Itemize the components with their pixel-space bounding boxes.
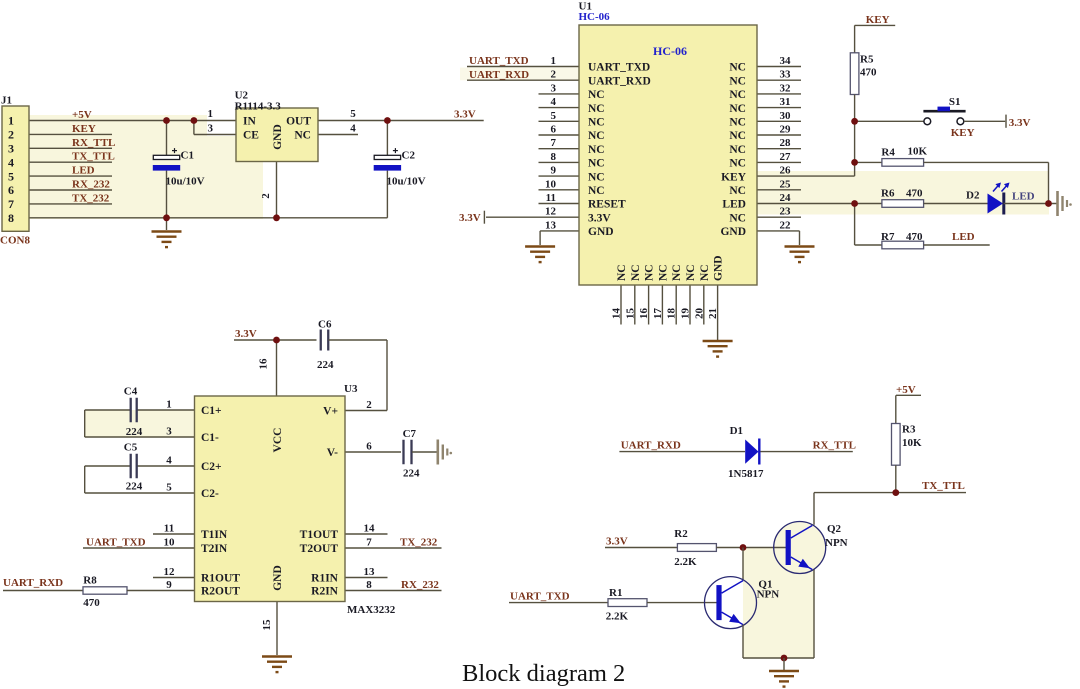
svg-text:3: 3 bbox=[166, 426, 172, 438]
svg-text:19: 19 bbox=[680, 308, 692, 320]
svg-text:S1: S1 bbox=[949, 96, 961, 108]
svg-text:C2: C2 bbox=[402, 150, 416, 162]
svg-text:10: 10 bbox=[164, 537, 176, 549]
svg-text:224: 224 bbox=[403, 468, 420, 480]
svg-text:1: 1 bbox=[166, 399, 172, 411]
svg-text:224: 224 bbox=[126, 426, 143, 438]
svg-text:+5V: +5V bbox=[72, 109, 92, 121]
svg-text:10K: 10K bbox=[908, 146, 928, 158]
svg-text:3.3V: 3.3V bbox=[1009, 117, 1031, 129]
svg-text:9: 9 bbox=[166, 579, 172, 591]
svg-text:T2OUT: T2OUT bbox=[300, 543, 339, 555]
svg-text:D1: D1 bbox=[730, 425, 743, 437]
svg-text:C2+: C2+ bbox=[201, 461, 222, 473]
svg-text:HC-06: HC-06 bbox=[579, 11, 611, 23]
svg-text:NC: NC bbox=[644, 264, 656, 281]
svg-text:16: 16 bbox=[638, 308, 650, 320]
svg-text:NC: NC bbox=[588, 130, 605, 142]
svg-text:NC: NC bbox=[588, 171, 605, 183]
svg-text:KEY: KEY bbox=[951, 127, 975, 139]
svg-text:R2IN: R2IN bbox=[311, 586, 339, 598]
svg-text:12: 12 bbox=[164, 566, 176, 578]
svg-text:NC: NC bbox=[729, 117, 746, 129]
svg-text:RX_232: RX_232 bbox=[72, 179, 110, 191]
svg-text:3.3V: 3.3V bbox=[454, 109, 476, 121]
svg-text:10u/10V: 10u/10V bbox=[166, 176, 205, 188]
svg-text:5: 5 bbox=[350, 108, 356, 120]
svg-text:R7: R7 bbox=[881, 231, 895, 243]
svg-text:NC: NC bbox=[729, 62, 746, 74]
svg-text:LED: LED bbox=[72, 165, 95, 177]
svg-text:NC: NC bbox=[294, 130, 311, 142]
svg-text:1: 1 bbox=[8, 114, 14, 128]
svg-text:NC: NC bbox=[685, 264, 697, 281]
svg-text:7: 7 bbox=[366, 537, 372, 549]
svg-text:C4: C4 bbox=[124, 386, 138, 398]
svg-text:R1OUT: R1OUT bbox=[201, 573, 240, 585]
svg-text:V-: V- bbox=[327, 447, 338, 459]
svg-text:4: 4 bbox=[551, 96, 557, 108]
svg-text:R1: R1 bbox=[609, 587, 622, 599]
svg-text:C1: C1 bbox=[181, 150, 194, 162]
svg-text:NC: NC bbox=[588, 158, 605, 170]
svg-text:32: 32 bbox=[780, 82, 792, 94]
svg-text:T1OUT: T1OUT bbox=[300, 529, 339, 541]
svg-text:+5V: +5V bbox=[896, 384, 916, 396]
svg-text:5: 5 bbox=[551, 110, 557, 122]
svg-text:D2: D2 bbox=[966, 190, 980, 202]
svg-text:C1-: C1- bbox=[201, 432, 219, 444]
svg-text:GND: GND bbox=[588, 226, 614, 238]
svg-text:Block diagram 2: Block diagram 2 bbox=[462, 660, 625, 687]
svg-text:C1+: C1+ bbox=[201, 405, 222, 417]
svg-text:HC-06: HC-06 bbox=[653, 44, 687, 58]
svg-text:470: 470 bbox=[860, 67, 877, 79]
svg-text:10u/10V: 10u/10V bbox=[387, 176, 426, 188]
svg-text:LED: LED bbox=[952, 231, 975, 243]
svg-text:R1114-3.3: R1114-3.3 bbox=[235, 101, 282, 113]
svg-text:GND: GND bbox=[272, 124, 284, 150]
svg-text:GND: GND bbox=[272, 565, 284, 591]
svg-text:14: 14 bbox=[611, 308, 623, 320]
svg-text:3: 3 bbox=[551, 82, 557, 94]
svg-text:TX_TTL: TX_TTL bbox=[72, 151, 115, 163]
svg-text:3.3V: 3.3V bbox=[606, 536, 628, 548]
svg-text:27: 27 bbox=[780, 151, 792, 163]
svg-text:22: 22 bbox=[780, 219, 792, 231]
svg-text:UART_RXD: UART_RXD bbox=[588, 75, 651, 87]
svg-text:UART_RXD: UART_RXD bbox=[621, 440, 681, 452]
svg-text:NC: NC bbox=[729, 212, 746, 224]
svg-text:8: 8 bbox=[551, 151, 557, 163]
svg-text:CE: CE bbox=[243, 130, 259, 142]
svg-text:11: 11 bbox=[164, 523, 174, 535]
svg-text:LED: LED bbox=[1012, 191, 1035, 203]
svg-text:R4: R4 bbox=[881, 147, 895, 159]
svg-text:T1IN: T1IN bbox=[201, 529, 228, 541]
svg-text:NC: NC bbox=[588, 89, 605, 101]
svg-text:NC: NC bbox=[616, 264, 628, 281]
svg-text:8: 8 bbox=[8, 211, 14, 225]
svg-text:GND: GND bbox=[713, 255, 725, 281]
svg-text:9: 9 bbox=[551, 165, 557, 177]
svg-text:4: 4 bbox=[350, 123, 356, 135]
svg-text:7: 7 bbox=[8, 197, 14, 211]
svg-text:UART_TXD: UART_TXD bbox=[86, 537, 146, 549]
svg-text:R8: R8 bbox=[83, 575, 97, 587]
svg-text:1: 1 bbox=[551, 55, 557, 67]
svg-text:26: 26 bbox=[780, 165, 792, 177]
svg-text:13: 13 bbox=[364, 566, 376, 578]
svg-text:NC: NC bbox=[630, 264, 642, 281]
svg-text:10: 10 bbox=[545, 178, 557, 190]
svg-text:UART_RXD: UART_RXD bbox=[3, 577, 63, 589]
svg-text:17: 17 bbox=[652, 308, 664, 320]
svg-text:NPN: NPN bbox=[757, 589, 780, 601]
svg-text:TX_232: TX_232 bbox=[400, 537, 438, 549]
svg-text:470: 470 bbox=[906, 188, 923, 200]
svg-text:1: 1 bbox=[208, 108, 214, 120]
svg-text:3.3V: 3.3V bbox=[459, 212, 481, 224]
svg-text:KEY: KEY bbox=[72, 123, 96, 135]
svg-text:NC: NC bbox=[729, 89, 746, 101]
svg-text:R5: R5 bbox=[860, 54, 874, 66]
svg-text:NC: NC bbox=[588, 144, 605, 156]
svg-text:T2IN: T2IN bbox=[201, 543, 228, 555]
svg-text:NC: NC bbox=[657, 264, 669, 281]
svg-text:16: 16 bbox=[258, 358, 270, 370]
svg-text:10K: 10K bbox=[902, 437, 922, 449]
svg-text:J1: J1 bbox=[1, 95, 12, 107]
svg-text:KEY: KEY bbox=[866, 14, 890, 26]
svg-text:8: 8 bbox=[366, 579, 372, 591]
svg-text:6: 6 bbox=[8, 183, 14, 197]
svg-text:RX_TTL: RX_TTL bbox=[813, 440, 856, 452]
svg-text:3.3V: 3.3V bbox=[235, 328, 257, 340]
svg-text:UART_RXD: UART_RXD bbox=[469, 69, 529, 81]
svg-text:11: 11 bbox=[546, 192, 556, 204]
svg-text:TX_TTL: TX_TTL bbox=[922, 480, 965, 492]
svg-text:23: 23 bbox=[780, 206, 792, 218]
svg-text:TX_232: TX_232 bbox=[72, 192, 110, 204]
svg-text:2.2K: 2.2K bbox=[606, 611, 629, 623]
svg-text:C5: C5 bbox=[124, 442, 138, 454]
svg-text:6: 6 bbox=[366, 441, 372, 453]
svg-text:224: 224 bbox=[317, 359, 334, 371]
svg-text:R2OUT: R2OUT bbox=[201, 586, 240, 598]
svg-text:6: 6 bbox=[551, 124, 557, 136]
svg-text:R1IN: R1IN bbox=[311, 573, 339, 585]
svg-text:30: 30 bbox=[780, 110, 792, 122]
svg-text:R3: R3 bbox=[902, 424, 916, 436]
svg-text:NC: NC bbox=[588, 185, 605, 197]
svg-text:15: 15 bbox=[261, 619, 273, 631]
svg-text:28: 28 bbox=[780, 137, 792, 149]
svg-text:470: 470 bbox=[83, 597, 100, 609]
svg-text:KEY: KEY bbox=[721, 171, 747, 183]
svg-text:NC: NC bbox=[588, 117, 605, 129]
svg-text:4: 4 bbox=[8, 155, 14, 169]
svg-text:29: 29 bbox=[780, 124, 792, 136]
svg-text:2: 2 bbox=[260, 193, 272, 199]
svg-text:C7: C7 bbox=[403, 428, 417, 440]
svg-text:7: 7 bbox=[551, 137, 557, 149]
svg-text:18: 18 bbox=[666, 308, 678, 320]
svg-text:LED: LED bbox=[722, 199, 746, 211]
svg-text:470: 470 bbox=[906, 231, 923, 243]
svg-text:CON8: CON8 bbox=[0, 235, 30, 247]
svg-text:4: 4 bbox=[166, 455, 172, 467]
svg-text:NC: NC bbox=[729, 158, 746, 170]
svg-text:31: 31 bbox=[780, 96, 791, 108]
svg-text:1N5817: 1N5817 bbox=[728, 468, 764, 480]
svg-text:2.2K: 2.2K bbox=[674, 556, 697, 568]
svg-text:UART_TXD: UART_TXD bbox=[469, 55, 529, 67]
svg-text:NC: NC bbox=[729, 103, 746, 115]
svg-text:C6: C6 bbox=[318, 319, 332, 331]
svg-text:OUT: OUT bbox=[286, 116, 311, 128]
svg-text:3: 3 bbox=[8, 142, 14, 156]
svg-text:NC: NC bbox=[729, 185, 746, 197]
svg-text:MAX3232: MAX3232 bbox=[347, 604, 396, 616]
svg-text:224: 224 bbox=[126, 481, 143, 493]
svg-text:Q2: Q2 bbox=[827, 523, 842, 535]
svg-text:2: 2 bbox=[551, 69, 557, 81]
svg-text:NC: NC bbox=[729, 130, 746, 142]
svg-text:34: 34 bbox=[780, 55, 792, 67]
svg-text:3: 3 bbox=[208, 123, 214, 135]
svg-text:V+: V+ bbox=[323, 406, 338, 418]
svg-text:2: 2 bbox=[8, 128, 14, 142]
svg-text:24: 24 bbox=[780, 192, 792, 204]
svg-text:20: 20 bbox=[693, 308, 705, 320]
svg-text:14: 14 bbox=[364, 523, 376, 535]
svg-text:13: 13 bbox=[545, 219, 557, 231]
svg-text:5: 5 bbox=[8, 169, 14, 183]
svg-text:R6: R6 bbox=[881, 188, 895, 200]
svg-text:U3: U3 bbox=[344, 383, 358, 395]
svg-text:UART_TXD: UART_TXD bbox=[510, 591, 570, 603]
svg-text:33: 33 bbox=[780, 69, 792, 81]
svg-text:25: 25 bbox=[780, 178, 792, 190]
svg-text:IN: IN bbox=[243, 116, 256, 128]
svg-text:21: 21 bbox=[707, 308, 719, 319]
svg-text:RX_TTL: RX_TTL bbox=[72, 137, 115, 149]
svg-text:VCC: VCC bbox=[272, 428, 284, 453]
svg-text:2: 2 bbox=[366, 399, 372, 411]
svg-text:GND: GND bbox=[720, 226, 746, 238]
svg-text:NC: NC bbox=[699, 264, 711, 281]
svg-text:RESET: RESET bbox=[588, 199, 626, 211]
svg-text:NC: NC bbox=[588, 103, 605, 115]
svg-text:NPN: NPN bbox=[825, 537, 848, 549]
svg-text:15: 15 bbox=[624, 308, 636, 320]
svg-text:R2: R2 bbox=[674, 528, 688, 540]
svg-text:3.3V: 3.3V bbox=[588, 212, 611, 224]
svg-text:12: 12 bbox=[545, 206, 557, 218]
svg-text:5: 5 bbox=[166, 482, 172, 494]
svg-text:UART_TXD: UART_TXD bbox=[588, 62, 650, 74]
svg-text:RX_232: RX_232 bbox=[401, 579, 439, 591]
svg-text:NC: NC bbox=[671, 264, 683, 281]
svg-text:NC: NC bbox=[729, 75, 746, 87]
svg-text:C2-: C2- bbox=[201, 488, 219, 500]
svg-text:NC: NC bbox=[729, 144, 746, 156]
